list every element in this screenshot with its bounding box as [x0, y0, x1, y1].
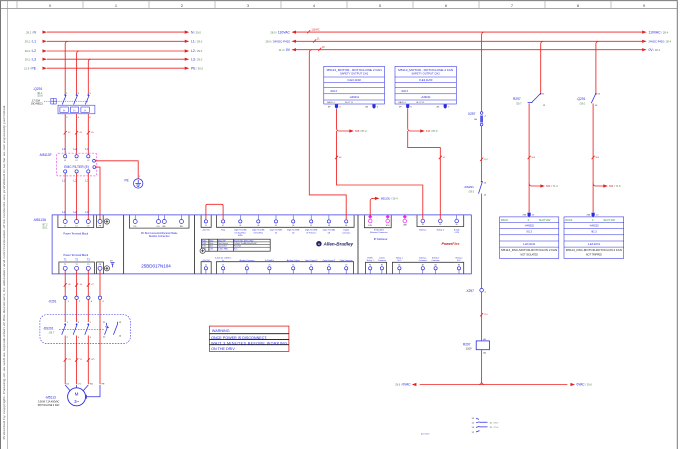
- svg-text:SLOT 202: SLOT 202: [604, 219, 616, 222]
- svg-text:+24V: +24V: [454, 232, 459, 234]
- svg-text:-A49202: -A49202: [589, 224, 599, 227]
- svg-text:Spd: Spd: [210, 246, 213, 248]
- svg-text:A: A: [318, 242, 320, 246]
- svg-text:S2: S2: [439, 224, 441, 226]
- svg-text:Common: Common: [342, 232, 350, 234]
- svg-text:0V / 30.4: 0V / 30.4: [649, 48, 661, 52]
- svg-text:0VAC / 29.6: 0VAC / 29.6: [577, 383, 593, 387]
- svg-text:44 / 41.7: 44 / 41.7: [421, 433, 430, 435]
- svg-text:5.5KW 7.2A 400VAC: 5.5KW 7.2A 400VAC: [38, 401, 59, 404]
- svg-text:2N: 2N: [365, 107, 368, 109]
- svg-text:-Q291: -Q291: [577, 97, 586, 101]
- svg-text:R6: R6: [458, 264, 460, 266]
- svg-text:M5113_MOTOR - ROTOCLONE 2 FAN: M5113_MOTOR - ROTOCLONE 2 FAN: [327, 68, 382, 72]
- svg-text:SAFETY OUTPUT CH2: SAFETY OUTPUT CH2: [411, 72, 440, 76]
- svg-text:13: 13: [222, 265, 224, 267]
- svg-text:2-Wire FWD: 2-Wire FWD: [218, 248, 229, 250]
- svg-text:Relay 1: Relay 1: [367, 260, 375, 262]
- svg-text:PE / 30.0: PE / 30.0: [191, 66, 204, 70]
- svg-text:-M5113U: -M5113U: [33, 218, 47, 222]
- svg-text:L3: L3: [87, 226, 89, 228]
- svg-text:110VAC / 28.4: 110VAC / 28.4: [649, 30, 669, 34]
- svg-text:11.3 / 0V: 11.3 / 0V: [279, 48, 291, 52]
- svg-text:Motor NP: Motor NP: [218, 239, 226, 242]
- svg-text:NOT ISOLATED: NOT ISOLATED: [521, 253, 539, 256]
- svg-text:Allen-Bradley: Allen-Bradley: [323, 242, 354, 247]
- svg-text:Analog Common: Analog Common: [239, 259, 254, 262]
- svg-text:RACK: RACK: [501, 219, 508, 222]
- svg-text:DC Bus Connection/Dynamic Brak: DC Bus Connection/Dynamic Brake: [141, 232, 178, 235]
- svg-text:/102.3: /102.3: [401, 90, 409, 93]
- svg-text:L2: L2: [74, 147, 78, 151]
- svg-text:DC+: DC+: [157, 226, 161, 228]
- svg-text:Common: Common: [432, 260, 440, 262]
- svg-text:Common: Common: [378, 260, 386, 262]
- svg-text:/102.3: /102.3: [330, 90, 338, 93]
- svg-text:Protected by copyright. Passin: Protected by copyright. Passing on as we…: [3, 104, 6, 440]
- svg-text:Safety 2: Safety 2: [437, 228, 445, 231]
- svg-text:L3: L3: [87, 160, 89, 162]
- svg-text:L2: L2: [76, 226, 78, 228]
- svg-text:P047: P047: [202, 246, 206, 248]
- svg-text:24VDC-P425 / 28.4: 24VDC-P425 / 28.4: [649, 39, 672, 43]
- svg-text:504 / 71.5: 504 / 71.5: [609, 184, 621, 188]
- svg-text:WAIT 3 MINUTES BEFORE WORKING: WAIT 3 MINUTES BEFORE WORKING: [211, 341, 287, 345]
- svg-text:M5113_MOTOR - ROTOCLONE 2 FAN: M5113_MOTOR - ROTOCLONE 2 FAN: [398, 68, 453, 72]
- svg-text:S1: S1: [422, 224, 424, 226]
- svg-text:29.2 / L3: 29.2 / L3: [25, 57, 36, 61]
- svg-text:/29.0: /29.0: [469, 190, 475, 193]
- svg-text:T1: T1: [64, 264, 66, 266]
- svg-text:L3 / 29.0: L3 / 29.0: [191, 57, 203, 61]
- svg-text:17: 17: [310, 265, 312, 267]
- svg-text:R297: R297: [463, 342, 471, 346]
- svg-text:/29.7: /29.7: [516, 103, 522, 106]
- svg-text:N.C.: N.C.: [457, 260, 461, 262]
- svg-text:Opto Output 2: Opto Output 2: [323, 259, 336, 262]
- svg-text:SLOT 202: SLOT 202: [539, 219, 551, 222]
- svg-text:-DS291: -DS291: [43, 326, 54, 330]
- svg-text:19: 19: [345, 265, 347, 267]
- svg-text:P046: P046: [202, 243, 206, 245]
- svg-text:-X291: -X291: [48, 300, 57, 304]
- svg-text:503 / 71.4: 503 / 71.4: [546, 184, 558, 188]
- svg-text:N / 29.0: N / 29.0: [191, 30, 201, 34]
- svg-text:RACK: RACK: [566, 219, 573, 222]
- svg-text:IP Address:: IP Address:: [374, 237, 388, 241]
- svg-text:Digital: Digital: [343, 229, 349, 232]
- svg-text:RACK 4: RACK 4: [327, 101, 335, 104]
- svg-text:Ethernet Connector: Ethernet Connector: [370, 231, 388, 234]
- svg-text:05: 05: [275, 225, 277, 227]
- svg-text:-M5113: -M5113: [45, 396, 56, 400]
- svg-text:2-W: 2-W: [210, 248, 214, 250]
- svg-text:L3: L3: [85, 147, 89, 151]
- svg-text:N.O.: N.O.: [397, 260, 402, 262]
- svg-text:Resistor Connection: Resistor Connection: [149, 235, 170, 238]
- svg-text:Safety 2: Safety 2: [432, 256, 440, 259]
- svg-text:02: 02: [239, 225, 241, 227]
- svg-text:06: 06: [292, 225, 294, 227]
- svg-text:L2: L2: [76, 160, 78, 162]
- svg-text:0V: 0V: [322, 47, 325, 49]
- svg-text:EMC FILTER (E): EMC FILTER (E): [64, 165, 89, 169]
- svg-text:FWD: FWD: [238, 235, 243, 237]
- svg-text:/29.1: /29.1: [42, 226, 48, 229]
- svg-text:/81.3: /81.3: [591, 231, 597, 234]
- svg-text:16: 16: [292, 265, 294, 267]
- svg-text:Opto Output 1: Opto Output 1: [305, 259, 318, 262]
- svg-text:29.2 / L1: 29.2 / L1: [25, 40, 36, 44]
- svg-text:ON THE DRIV: ON THE DRIV: [211, 347, 235, 351]
- svg-text:110V: 110V: [466, 348, 472, 351]
- svg-text:110VAC: 110VAC: [312, 28, 321, 31]
- svg-text:A2: A2: [422, 263, 424, 266]
- svg-text:DIO-ME21: DIO-ME21: [31, 102, 43, 105]
- svg-text:/29.7: /29.7: [49, 332, 55, 335]
- svg-text:Safety: Safety: [454, 228, 460, 231]
- svg-text:M5113_DSC-MOTOR-ROTOCLON 2 FAN: M5113_DSC-MOTOR-ROTOCLON 2 FAN: [566, 249, 622, 252]
- svg-text:Power Terminal Block: Power Terminal Block: [63, 253, 89, 257]
- svg-text:03 Dir/Rev: 03 Dir/Rev: [254, 232, 263, 234]
- svg-text:Run: Run: [234, 248, 237, 250]
- svg-text:L1: L1: [64, 160, 66, 162]
- svg-text:L2 / 29.0: L2 / 29.0: [191, 49, 203, 53]
- svg-text:12: 12: [205, 265, 207, 267]
- svg-text:M: M: [75, 392, 79, 397]
- svg-text:25BD017N104: 25BD017N104: [141, 264, 171, 269]
- svg-text:29.2 / N: 29.2 / N: [26, 30, 36, 34]
- svg-text:Common: Common: [419, 260, 427, 262]
- svg-text:ONCE POWER IS DISCONNECT,: ONCE POWER IS DISCONNECT,: [211, 336, 267, 340]
- svg-text:PowerFlex: PowerFlex: [442, 242, 461, 246]
- svg-text:Safety 1: Safety 1: [419, 228, 427, 231]
- svg-text:M5113_DSC-MOTOR-ROTOCLON 2 FAN: M5113_DSC-MOTOR-ROTOCLON 2 FAN: [501, 249, 557, 252]
- svg-text:L2: L2: [74, 210, 78, 214]
- svg-text:2N: 2N: [436, 107, 439, 109]
- svg-text:510 / 87.3: 510 / 87.3: [426, 129, 438, 133]
- svg-text:02 Start/Run: 02 Start/Run: [235, 231, 246, 234]
- svg-text:-DS291: -DS291: [464, 185, 475, 189]
- svg-text:RACK 4: RACK 4: [398, 101, 406, 104]
- svg-text:SLOT 11: SLOT 11: [416, 102, 425, 104]
- svg-text:T2: T2: [76, 264, 78, 266]
- svg-text:Opto Common: Opto Common: [340, 259, 353, 262]
- svg-text:508 / 87.2: 508 / 87.2: [355, 129, 367, 133]
- svg-text:Volts: Volts: [210, 239, 214, 242]
- svg-text:T3: T3: [87, 264, 89, 266]
- svg-text:04: 04: [345, 225, 347, 227]
- svg-text:X297: X297: [468, 112, 476, 116]
- svg-text:M5113U / 30.4: M5113U / 30.4: [381, 197, 398, 201]
- svg-text:07: 07: [310, 225, 312, 227]
- svg-text:L3: L3: [85, 210, 89, 214]
- svg-text:3~: 3~: [74, 399, 79, 404]
- svg-text:SLOT 11: SLOT 11: [345, 102, 354, 104]
- svg-text:Power Terminal Block: Power Terminal Block: [63, 231, 89, 235]
- svg-text:R2: R2: [381, 264, 383, 266]
- svg-text:PE: PE: [125, 179, 129, 183]
- svg-text:1-E3.02/12: 1-E3.02/12: [588, 243, 601, 246]
- svg-text:15: 15: [268, 265, 270, 267]
- svg-text:/29.7: /29.7: [494, 423, 500, 425]
- svg-text:21.9 / PE: 21.9 / PE: [24, 66, 37, 70]
- svg-text:SAFETY OUTPUT CH1: SAFETY OUTPUT CH1: [340, 72, 369, 76]
- svg-text:/81.3: /81.3: [526, 231, 532, 234]
- svg-text:Start: Start: [210, 242, 214, 245]
- svg-text:L1: L1: [64, 226, 66, 228]
- svg-text:29.6 / 0VAC: 29.6 / 0VAC: [395, 383, 411, 387]
- svg-text:+10V DC: +10V DC: [202, 260, 211, 262]
- svg-text:S+: S+: [456, 224, 458, 226]
- svg-text:+24V DC: +24V DC: [202, 230, 211, 232]
- svg-text:BR+: BR+: [163, 226, 167, 228]
- svg-text:L1 / 29.0: L1 / 29.0: [191, 40, 203, 44]
- svg-text:07 Pulse In: 07 Pulse In: [306, 232, 316, 234]
- svg-text:/29.0: /29.0: [580, 103, 586, 106]
- svg-text:08: 08: [328, 225, 330, 227]
- svg-text:Analog Output: Analog Output: [287, 259, 300, 262]
- svg-text:/75.4: /75.4: [494, 427, 500, 429]
- svg-text:28.0 / 110VAC: 28.0 / 110VAC: [270, 30, 290, 34]
- svg-text:O-E3.11/03: O-E3.11/03: [419, 78, 433, 82]
- svg-text:Start Source: Start Source: [218, 242, 228, 245]
- svg-text:Safety 1: Safety 1: [419, 256, 427, 259]
- svg-text:In: In: [222, 260, 224, 262]
- svg-text:18: 18: [328, 265, 330, 267]
- svg-text:-M5113F: -M5113F: [39, 153, 52, 157]
- svg-text:-A49202: -A49202: [524, 225, 534, 228]
- svg-text:O-E3.11/02: O-E3.11/02: [347, 78, 361, 82]
- svg-text:-Q291: -Q291: [33, 87, 43, 91]
- svg-text:R297: R297: [513, 97, 521, 101]
- svg-text:A1: A1: [398, 263, 400, 266]
- svg-text:-A49211: -A49211: [421, 95, 431, 99]
- svg-text:NOT TRIPPED: NOT TRIPPED: [586, 253, 602, 256]
- svg-text:14: 14: [246, 265, 248, 267]
- svg-text:BR-: BR-: [180, 226, 183, 228]
- svg-text:ROTOCLONE 2 FAN: ROTOCLONE 2 FAN: [38, 404, 60, 407]
- svg-text:29.2 / L2: 29.2 / L2: [25, 49, 36, 53]
- svg-text:03: 03: [257, 225, 259, 227]
- svg-text:-A49211: -A49211: [349, 95, 359, 99]
- svg-text:Speed Ref: Speed Ref: [218, 246, 227, 248]
- svg-text:/29.8: /29.8: [37, 95, 43, 98]
- svg-text:DC-: DC-: [134, 226, 138, 228]
- svg-text:L1: L1: [62, 210, 66, 214]
- svg-text:WARNING: WARNING: [212, 329, 230, 333]
- svg-text:11: 11: [205, 225, 207, 227]
- svg-text:EtherNet: EtherNet: [234, 245, 242, 248]
- svg-text:28.0 / 24VDC-P425: 28.0 / 24VDC-P425: [265, 40, 290, 44]
- svg-text:Rated Volts 400V 2-Wire: Rated Volts 400V 2-Wire: [234, 239, 254, 242]
- svg-text:L1: L1: [62, 147, 66, 151]
- svg-text:01: 01: [222, 225, 224, 227]
- svg-text:1-E3.02/11: 1-E3.02/11: [523, 243, 536, 246]
- svg-text:R1: R1: [369, 264, 371, 266]
- svg-text:-X297: -X297: [465, 289, 474, 293]
- svg-text:4-20mA In: 4-20mA In: [265, 259, 274, 262]
- svg-text:A3: A3: [435, 263, 437, 266]
- svg-text:2=DigIn TrmBlk+EtherNet/IP: 2=DigIn TrmBlk+EtherNet/IP: [234, 242, 257, 245]
